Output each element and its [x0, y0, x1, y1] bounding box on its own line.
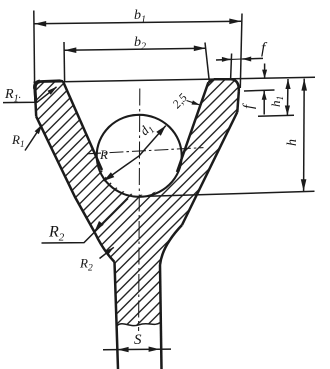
b1 extension line right: [240, 14, 242, 89]
b2 dimension line: [64, 48, 206, 50]
f horizontal dimension (arrows outside): [216, 58, 231, 61]
svg-text:R: R: [99, 147, 108, 162]
hatched material region of the pulley cross-section: [35, 79, 239, 325]
profile outline: right rim corner arc R1: [231, 79, 239, 91]
svg-text:b1: b1: [134, 8, 146, 26]
h dimension line: [303, 79, 306, 192]
profile outline: right rim top flat: [214, 78, 231, 81]
svg-text:h: h: [285, 139, 300, 146]
d1 radius arrow and label: [139, 126, 166, 156]
profile outline: stem right wall: [160, 265, 162, 369]
b2 extension line left: [63, 42, 66, 81]
svg-text:R2: R2: [48, 224, 65, 244]
svg-text:R1: R1: [11, 132, 24, 149]
profile outline: right cone edge: [182, 112, 237, 225]
svg-text:h1: h1: [268, 96, 286, 107]
h1 dimension line: [286, 79, 289, 116]
svg-text:f: f: [261, 40, 268, 57]
profile outline: right groove flank: [177, 82, 208, 172]
vertical centerline: [139, 89, 140, 332]
profile outline: left rim top flat and chamfer: [38, 79, 63, 82]
break line (wavy) across stem: [117, 323, 160, 326]
b2 extension line right: [205, 43, 209, 81]
groove bottom extension line: [139, 191, 315, 196]
h1 extension line (circle top level): [258, 115, 294, 116]
svg-text:b2: b2: [134, 35, 146, 53]
profile outline: stem left wall: [115, 262, 119, 369]
S dimension line: [103, 348, 171, 351]
svg-text:f: f: [241, 103, 257, 109]
svg-text:R2: R2: [79, 256, 93, 274]
profile outline: left cone edge: [36, 117, 95, 234]
top surface extension line (thin, full width): [34, 77, 316, 82]
svg-text:S: S: [134, 332, 142, 348]
b1 dimension line: [34, 21, 241, 24]
profile outline: left groove flank: [63, 81, 102, 170]
f vertical extension line: [244, 90, 275, 91]
profile outline: right rim chamfer 2.5: [208, 79, 214, 82]
profile outline: left rim outer vertical edge: [35, 89, 36, 117]
profile outline: left R2 fillet: [95, 233, 115, 262]
rope circle d1: [97, 115, 182, 197]
b1 extension line left: [33, 11, 36, 85]
profile outline: left rim corner arc: [35, 81, 40, 89]
f horizontal: mid extension line: [231, 54, 232, 80]
horizontal centerline: [87, 148, 204, 154]
R radius arrow and label: [104, 156, 140, 181]
profile outline: right R2 fillet: [160, 225, 182, 265]
f vertical dimension (arrows outside): [264, 64, 266, 79]
profile outline: right rim outer vertical edge: [237, 92, 239, 113]
